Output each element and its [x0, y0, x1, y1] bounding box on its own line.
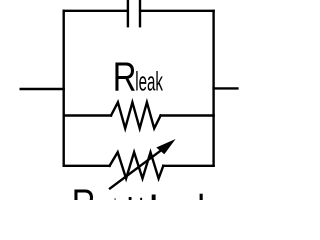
svg-text:R: R	[72, 180, 96, 200]
capacitor C1 right plate	[139, 0, 141, 26]
wire: right vertical bus	[212, 11, 214, 166]
wire: left vertical bus	[63, 11, 65, 166]
variable resistor arrow shaft	[110, 150, 162, 188]
label Rleak: R	[113, 53, 137, 99]
variable resistor arrow head	[156, 139, 175, 154]
wire: right external lead	[214, 87, 238, 89]
wire: left external lead	[21, 88, 64, 90]
resistor Rleak zigzag	[111, 102, 161, 128]
capacitor C1 left plate	[127, 0, 129, 26]
wire: middle branch right segment	[161, 114, 214, 116]
variable resistor zigzag	[110, 152, 164, 178]
wire: bottom branch right segment	[163, 165, 213, 167]
wire: top left segment to capacitor	[64, 10, 127, 12]
wire: bottom branch left segment	[64, 165, 110, 167]
label R (bottom, cut off): R	[72, 180, 96, 226]
label Rleak: leak subscript	[135, 66, 163, 97]
svg-text:leak: leak	[135, 66, 163, 97]
label bottom subscript letter tops (cut off at page edge)	[114, 194, 202, 200]
wire: middle branch left segment	[64, 114, 111, 116]
svg-text:R: R	[113, 53, 137, 99]
wire: top right segment from capacitor	[141, 10, 214, 12]
